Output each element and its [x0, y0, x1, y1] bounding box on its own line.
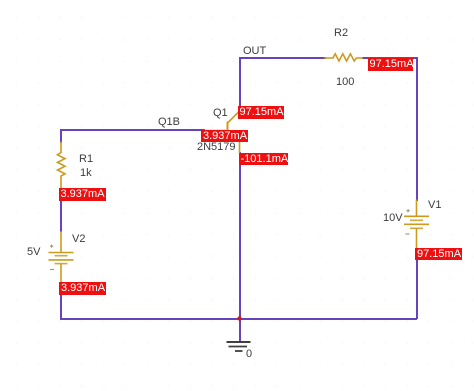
wire: stub from ground junction down to ground symbol	[239, 318, 241, 342]
current label -101.1mA at Q1 emitter	[239, 153, 289, 166]
base lead	[204, 130, 227, 132]
wire: net Q1B horizontal from left branch to Q1 base	[60, 129, 205, 131]
reference designator V1	[428, 200, 441, 211]
voltage source V1 battery plates	[404, 200, 429, 250]
reference designator R1	[79, 154, 93, 165]
wire: left vertical from Q1B corner to R1 top pin	[60, 129, 62, 143]
resistor R1 body (vertical zigzag)	[58, 142, 66, 190]
value label 10V of V1	[383, 213, 403, 224]
collector diagonal lead	[228, 107, 239, 123]
value label 5V of V2	[27, 247, 40, 258]
wire: net OUT, from R2 right pin to right vertical	[362, 57, 417, 59]
wire: emitter vertical from Q1 down to ground junction	[239, 152, 241, 319]
junction dot at emitter/ground node	[237, 316, 241, 320]
wire: net OUT, top horizontal from collector corner to R2 left pin	[239, 57, 326, 59]
current label 3.937mA through R1	[59, 188, 107, 201]
reference designator R2	[334, 28, 348, 39]
current label 97.15mA through V1	[415, 248, 462, 261]
wire: right vertical from V1 bottom pin to bottom rail	[416, 248, 418, 319]
current label 97.15mA at Q1 collector	[238, 106, 285, 119]
V2 minus marker	[50, 269, 54, 271]
wire: collector vertical drop from OUT corner to Q1	[239, 57, 241, 107]
wire: left vertical between R1 bottom pin and V2 top pin	[60, 188, 62, 232]
base bar	[227, 122, 229, 139]
value label 2N5179 of Q1	[197, 142, 236, 153]
current label 97.15mA through R2	[368, 58, 414, 71]
V1 plus marker	[407, 209, 410, 212]
value label 100 of R2	[336, 77, 354, 88]
ground symbol 0	[227, 342, 251, 351]
wire: left vertical from V2 bottom pin to bottom rail	[60, 282, 62, 320]
node label 0 at ground	[246, 349, 252, 360]
V1 minus marker	[406, 233, 410, 235]
reference designator Q1	[213, 108, 228, 119]
wire: bottom ground rail	[60, 318, 417, 320]
transistor Q1 body (2N5179)	[204, 107, 240, 153]
value label 1k of R1	[80, 168, 92, 179]
node label OUT	[243, 46, 266, 57]
emitter diagonal lead	[228, 137, 240, 153]
resistor R2 body (horizontal zigzag)	[324, 54, 363, 61]
wire: right vertical from top rail down to V1 top pin	[416, 57, 418, 201]
reference designator V2	[72, 234, 85, 245]
V2 plus marker	[50, 245, 53, 248]
current label 3.937mA through V2	[59, 282, 106, 295]
current label 3.937mA at Q1 base	[201, 130, 248, 143]
voltage source V2 battery plates	[49, 231, 74, 283]
node label Q1B	[158, 117, 180, 128]
